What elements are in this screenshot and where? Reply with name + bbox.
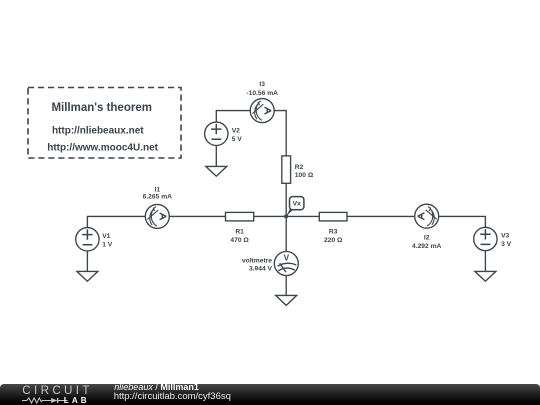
svg-text:Vx: Vx — [293, 201, 301, 208]
wire I3 right to R2 top — [274, 111, 286, 156]
ground under V1 — [77, 251, 98, 281]
svg-text:V: V — [284, 253, 290, 262]
svg-text:5 V: 5 V — [232, 136, 243, 143]
voltage source V1 — [76, 228, 113, 251]
footer text line 1 — [114, 383, 199, 392]
wire V2 top to I3 left — [216, 111, 250, 123]
svg-text:Millman's theorem: Millman's theorem — [51, 102, 152, 114]
voltage source V3 — [474, 227, 512, 250]
footer bar — [0, 384, 540, 405]
ammeter I2 — [412, 204, 442, 250]
svg-text:V1: V1 — [102, 233, 110, 240]
node Vx junction — [284, 214, 288, 218]
wire R3 right to I2 left — [347, 215, 415, 217]
footer text line 2 — [114, 392, 231, 402]
wire I2 right to V3 top — [439, 216, 486, 227]
wire I1 right to R1 left — [169, 215, 225, 217]
svg-text:-10.56 mA: -10.56 mA — [246, 90, 278, 97]
CircuitLab logo word CIRCUIT — [22, 385, 92, 397]
voltage source V2 — [205, 122, 243, 145]
svg-text:V2: V2 — [232, 127, 240, 134]
svg-text:3 V: 3 V — [501, 241, 512, 248]
svg-text:6.265 mA: 6.265 mA — [143, 194, 173, 201]
svg-text:http://nliebeaux.net: http://nliebeaux.net — [52, 125, 144, 136]
voltmeter — [242, 252, 298, 276]
svg-text:R2: R2 — [295, 164, 304, 171]
svg-text:http://www.mooc4U.net: http://www.mooc4U.net — [47, 142, 158, 153]
resistor R1 — [226, 212, 254, 243]
CircuitLab logo resistor-diode squiggle — [22, 397, 68, 404]
svg-text:4.292 mA: 4.292 mA — [412, 243, 442, 250]
resistor R2 — [282, 156, 314, 183]
wire voltmeter bottom to ground — [285, 276, 287, 296]
ammeter I3 — [246, 81, 278, 122]
svg-text:R3: R3 — [329, 229, 338, 236]
wire R1 right to node Vx — [254, 215, 287, 217]
svg-text:3.944 V: 3.944 V — [249, 266, 273, 273]
wire R2 bottom to node Vx — [285, 183, 287, 216]
svg-text:I1: I1 — [155, 186, 161, 193]
CircuitLab logo word LAB — [64, 397, 90, 405]
svg-text:R1: R1 — [235, 229, 244, 236]
annotation box Millman's theorem — [28, 88, 181, 159]
svg-text:V3: V3 — [501, 233, 509, 240]
svg-text:1 V: 1 V — [102, 241, 113, 248]
svg-text:voltmetre: voltmetre — [242, 258, 272, 265]
svg-text:100 Ω: 100 Ω — [295, 172, 314, 179]
ground under voltmeter — [276, 295, 297, 305]
svg-text:470 Ω: 470 Ω — [230, 237, 249, 244]
resistor R3 — [319, 212, 347, 243]
wire node Vx to R3 left — [286, 215, 319, 217]
node flag Vx — [286, 197, 304, 217]
svg-text:220 Ω: 220 Ω — [324, 237, 343, 244]
ammeter I1 — [143, 186, 173, 228]
svg-text:I3: I3 — [259, 81, 265, 88]
wire node Vx to voltmeter top — [285, 216, 287, 251]
ground under V2 — [206, 146, 227, 177]
svg-text:I2: I2 — [424, 234, 430, 241]
wire V1 top to I1 left — [87, 216, 145, 227]
ground under V3 — [475, 251, 496, 282]
